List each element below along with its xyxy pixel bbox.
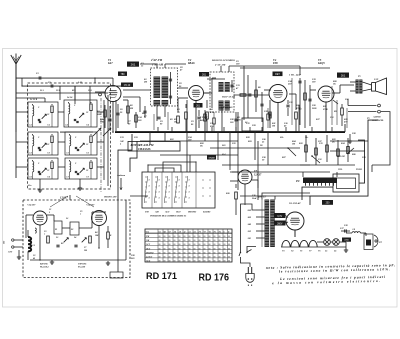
svg-text:88: 88 (194, 244, 196, 246)
svg-text:RADIO: RADIO (203, 211, 211, 214)
svg-text:87,5-108: 87,5-108 (78, 266, 85, 268)
svg-text:AUX: AUX (145, 260, 151, 263)
svg-text:C2A: C2A (88, 89, 92, 92)
svg-text:88: 88 (174, 252, 176, 254)
svg-text:2xOCT: 2xOCT (145, 257, 153, 259)
svg-text:88: 88 (164, 244, 166, 246)
svg-text:TONO: TONO (356, 169, 362, 171)
svg-text:98,3-118,3: 98,3-118,3 (40, 266, 49, 268)
svg-text:Z1: Z1 (55, 229, 57, 231)
svg-text:88: 88 (214, 252, 216, 254)
svg-text:88: 88 (219, 236, 221, 238)
svg-text:RD 176: RD 176 (199, 272, 230, 283)
svg-text:88: 88 (179, 257, 181, 259)
svg-text:½12AT7: ½12AT7 (86, 204, 95, 207)
svg-text:L5: L5 (66, 153, 69, 155)
svg-text:88: 88 (194, 261, 196, 263)
svg-text:88: 88 (164, 236, 166, 238)
svg-text:L1A: L1A (39, 89, 44, 92)
svg-text:88: 88 (174, 257, 176, 259)
svg-text:RD 171: RD 171 (146, 271, 178, 282)
svg-text:88: 88 (204, 261, 206, 263)
svg-text:88: 88 (159, 257, 161, 259)
svg-text:6,3V: 6,3V (277, 216, 282, 218)
svg-text:88: 88 (219, 248, 221, 250)
svg-text:CHASSIS: CHASSIS (138, 147, 151, 151)
svg-text:88: 88 (189, 257, 191, 259)
svg-text:88: 88 (209, 252, 211, 254)
svg-text:88: 88 (184, 257, 186, 259)
svg-text:88: 88 (179, 244, 181, 246)
svg-text:6A7: 6A7 (108, 62, 113, 65)
svg-text:AM: AM (145, 239, 149, 242)
svg-text:C2: C2 (33, 255, 35, 257)
svg-text:o8: o8 (178, 180, 180, 182)
svg-text:V6 AX5-4T: V6 AX5-4T (289, 202, 301, 205)
svg-text:88: 88 (214, 248, 216, 250)
svg-text:OCT: OCT (176, 212, 181, 214)
svg-text:88: 88 (228, 257, 230, 259)
svg-text:CAP: CAP (374, 78, 379, 81)
svg-text:88: 88 (224, 244, 226, 246)
svg-text:270K: 270K (322, 109, 328, 111)
svg-text:L5: L5 (188, 231, 191, 233)
svg-text:GRAM: GRAM (209, 156, 215, 159)
svg-text:88: 88 (209, 240, 211, 242)
svg-text:88: 88 (189, 240, 191, 242)
svg-text:88: 88 (204, 236, 206, 238)
svg-text:88: 88 (164, 261, 166, 263)
svg-text:88: 88 (199, 248, 201, 250)
svg-text:88: 88 (209, 244, 211, 246)
svg-text:88: 88 (199, 252, 201, 254)
svg-text:88: 88 (179, 236, 181, 238)
svg-text:R4: R4 (95, 231, 97, 234)
svg-text:88: 88 (214, 236, 216, 238)
svg-text:88: 88 (159, 252, 161, 254)
svg-text:6AQ5: 6AQ5 (318, 62, 325, 65)
svg-text:88: 88 (228, 240, 230, 242)
svg-text:o8: o8 (188, 180, 190, 182)
svg-text:2°AF-AM: 2°AF-AM (214, 64, 226, 67)
svg-text:2: 2 (48, 212, 50, 214)
svg-text:FM-OSC: FM-OSC (78, 264, 87, 266)
svg-text:88: 88 (169, 252, 171, 254)
svg-text:R21: R21 (170, 139, 174, 141)
svg-text:TRAP-AF 460: TRAP-AF 460 (222, 96, 236, 99)
svg-text:PHONO ANT: PHONO ANT (104, 196, 117, 199)
svg-text:88: 88 (224, 248, 226, 250)
svg-text:261: 261 (341, 74, 346, 78)
svg-text:V1: V1 (300, 251, 302, 253)
svg-text:88: 88 (199, 257, 201, 259)
svg-text:88: 88 (189, 236, 191, 238)
svg-text:88: 88 (199, 236, 201, 238)
svg-text:ANT: ANT (7, 251, 13, 254)
svg-text:VOL: VOL (338, 169, 343, 171)
svg-text:C1A: C1A (56, 89, 60, 92)
svg-text:40: 40 (32, 257, 35, 260)
svg-text:88: 88 (219, 261, 221, 263)
svg-text:C3: C3 (44, 231, 46, 233)
svg-text:o8: o8 (158, 192, 160, 194)
svg-text:12AX7: 12AX7 (254, 174, 262, 177)
svg-text:C3: C3 (48, 153, 50, 155)
svg-text:12AT7: 12AT7 (60, 196, 68, 200)
svg-text:88: 88 (169, 240, 171, 242)
svg-text:88: 88 (159, 244, 161, 246)
svg-text:88: 88 (204, 252, 206, 254)
svg-text:88: 88 (179, 261, 181, 263)
svg-text:1M: 1M (272, 126, 275, 128)
svg-text:88: 88 (194, 240, 196, 242)
svg-text:L4: L4 (73, 236, 76, 239)
svg-text:o8: o8 (178, 192, 180, 194)
svg-text:2K: 2K (331, 142, 335, 144)
svg-text:½12AT7: ½12AT7 (27, 204, 36, 207)
svg-text:88: 88 (164, 257, 166, 259)
svg-text:88: 88 (164, 252, 166, 254)
svg-text:N2: N2 (218, 231, 221, 233)
svg-text:88: 88 (219, 257, 221, 259)
svg-text:88: 88 (194, 252, 196, 254)
svg-text:1 TB - 22uF: 1 TB - 22uF (289, 74, 302, 77)
svg-text:88: 88 (184, 236, 186, 238)
svg-text:88: 88 (219, 252, 221, 254)
svg-text:Z2: Z2 (71, 229, 73, 231)
svg-text:ACT: ACT (145, 243, 151, 246)
svg-text:88: 88 (189, 252, 191, 254)
svg-text:88: 88 (214, 240, 216, 242)
svg-text:88: 88 (169, 261, 171, 263)
svg-text:PHONO: PHONO (188, 212, 197, 214)
svg-text:L4: L4 (65, 124, 68, 127)
svg-text:L2: L2 (65, 218, 68, 220)
svg-text:88: 88 (224, 252, 226, 254)
svg-text:PU: PU (296, 180, 300, 183)
svg-text:V7: V7 (204, 231, 206, 233)
svg-text:L3: L3 (29, 153, 32, 155)
svg-text:88: 88 (219, 240, 221, 242)
svg-text:C6: C6 (48, 177, 50, 179)
svg-text:C5: C5 (87, 153, 89, 155)
svg-text:88: 88 (179, 252, 181, 254)
svg-text:C5: C5 (80, 211, 82, 213)
svg-text:6T8: 6T8 (273, 62, 278, 65)
svg-text:88: 88 (174, 244, 176, 246)
svg-text:o8: o8 (188, 192, 190, 194)
svg-text:88: 88 (214, 257, 216, 259)
svg-text:o8: o8 (148, 186, 150, 188)
svg-text:L6: L6 (193, 231, 196, 233)
svg-text:o8: o8 (158, 198, 160, 200)
svg-text:88: 88 (228, 244, 230, 246)
svg-text:88: 88 (169, 236, 171, 238)
svg-text:88: 88 (204, 257, 206, 259)
svg-text:PHONO: PHONO (146, 252, 154, 254)
svg-text:88: 88 (224, 261, 226, 263)
svg-text:88: 88 (209, 236, 211, 238)
svg-text:o8: o8 (188, 198, 190, 200)
svg-text:L2 C2 R: L2 C2 R (29, 99, 38, 101)
svg-text:L6: L6 (29, 177, 32, 179)
svg-text:88: 88 (184, 240, 186, 242)
svg-text:88: 88 (219, 244, 221, 246)
svg-text:88: 88 (228, 236, 230, 238)
svg-text:88: 88 (159, 236, 161, 238)
svg-text:o8: o8 (178, 186, 180, 188)
svg-text:Jackson: Jackson (117, 174, 126, 177)
svg-text:L5: L5 (324, 251, 327, 253)
svg-text:88: 88 (228, 261, 230, 263)
svg-text:6BA6: 6BA6 (188, 62, 195, 65)
svg-text:88: 88 (194, 236, 196, 238)
svg-text:88: 88 (204, 244, 206, 246)
svg-text:88: 88 (189, 248, 191, 250)
svg-text:C1: C1 (36, 73, 39, 75)
svg-text:88: 88 (199, 244, 201, 246)
svg-text:2M: 2M (129, 108, 133, 110)
svg-text:88: 88 (228, 252, 230, 254)
svg-text:2M: 2M (143, 82, 147, 84)
svg-text:88: 88 (224, 236, 226, 238)
svg-text:88: 88 (209, 261, 211, 263)
svg-text:88: 88 (209, 248, 211, 250)
svg-text:2°AF-FM: 2°AF-FM (150, 59, 163, 62)
svg-text:88: 88 (159, 261, 161, 263)
svg-text:88: 88 (184, 261, 186, 263)
svg-text:1M: 1M (292, 144, 295, 146)
svg-text:o8: o8 (148, 180, 150, 182)
svg-text:o8: o8 (168, 180, 170, 182)
svg-text:88: 88 (224, 257, 226, 259)
svg-text:N1: N1 (213, 231, 216, 233)
svg-text:L4 C4: L4 C4 (66, 96, 72, 99)
svg-text:88: 88 (159, 248, 161, 250)
svg-text:261: 261 (131, 63, 136, 67)
svg-text:FM: FM (146, 236, 149, 238)
svg-text:260V: 260V (277, 223, 283, 225)
svg-text:88: 88 (164, 240, 166, 242)
svg-text:o8: o8 (158, 186, 160, 188)
svg-text:o8: o8 (168, 198, 170, 200)
svg-text:OCT: OCT (146, 248, 151, 250)
svg-text:S1c: S1c (305, 137, 308, 139)
svg-text:R1A: R1A (72, 89, 76, 92)
svg-text:o8: o8 (148, 192, 150, 194)
svg-text:o8: o8 (188, 186, 190, 188)
svg-text:88: 88 (224, 240, 226, 242)
svg-text:ACT: ACT (164, 211, 170, 214)
svg-text:V3: V3 (282, 251, 284, 253)
svg-text:88: 88 (194, 257, 196, 259)
svg-text:88: 88 (174, 261, 176, 263)
svg-text:88: 88 (174, 248, 176, 250)
svg-text:C4: C4 (87, 124, 89, 127)
svg-text:88: 88 (204, 248, 206, 250)
svg-text:88: 88 (174, 240, 176, 242)
svg-text:88: 88 (199, 240, 201, 242)
svg-text:88: 88 (214, 244, 216, 246)
svg-text:V5: V5 (318, 251, 320, 253)
svg-text:88: 88 (184, 252, 186, 254)
svg-text:SUPPLEM.: SUPPLEM. (372, 119, 384, 122)
svg-text:POSIZIONI DEL COMMUTATORE S1: POSIZIONI DEL COMMUTATORE S1 (150, 215, 186, 218)
svg-text:88: 88 (184, 248, 186, 250)
svg-text:88: 88 (174, 236, 176, 238)
svg-text:R28 1M: R28 1M (337, 156, 346, 158)
svg-text:500: 500 (84, 250, 87, 252)
svg-text:50uF: 50uF (252, 198, 257, 200)
svg-text:261: 261 (202, 73, 207, 76)
svg-text:AM: AM (119, 140, 123, 143)
svg-text:30K: 30K (99, 122, 104, 124)
svg-text:o8: o8 (148, 198, 150, 200)
svg-text:o8: o8 (158, 180, 160, 182)
svg-text:88: 88 (184, 244, 186, 246)
svg-text:V2: V2 (291, 251, 293, 253)
svg-text:88: 88 (169, 244, 171, 246)
svg-text:88: 88 (209, 257, 211, 259)
svg-text:88: 88 (169, 248, 171, 250)
svg-text:o8: o8 (168, 186, 170, 188)
svg-text:R2: R2 (61, 243, 63, 245)
svg-text:300: 300 (4, 241, 6, 245)
svg-text:C5 40: C5 40 (124, 84, 131, 87)
svg-text:88: 88 (159, 240, 161, 242)
svg-text:88: 88 (204, 240, 206, 242)
svg-text:780: 780 (121, 73, 126, 76)
svg-text:88: 88 (164, 248, 166, 250)
svg-text:88: 88 (194, 248, 196, 250)
svg-text:88: 88 (214, 261, 216, 263)
svg-text:88: 88 (179, 248, 181, 250)
svg-text:C1: C1 (49, 209, 51, 211)
svg-text:C31: C31 (318, 159, 322, 161)
svg-text:DET: DET (275, 74, 280, 76)
svg-text:C2: C2 (48, 125, 50, 127)
svg-text:L2: L2 (29, 125, 32, 127)
svg-text:BLOCCO ACCORDO: BLOCCO ACCORDO (211, 59, 235, 62)
svg-text:88: 88 (228, 248, 230, 250)
svg-text:o8: o8 (178, 198, 180, 200)
svg-text:12: 12 (183, 231, 185, 233)
svg-text:KR-OSC: KR-OSC (39, 264, 48, 266)
svg-text:88: 88 (169, 257, 171, 259)
svg-text:L3: L3 (55, 237, 58, 239)
svg-text:88: 88 (189, 261, 191, 263)
svg-text:L1: L1 (32, 245, 35, 247)
svg-text:V6: V6 (209, 231, 211, 233)
svg-text:88: 88 (199, 261, 201, 263)
svg-text:88: 88 (179, 240, 181, 242)
svg-text:88: 88 (189, 244, 191, 246)
svg-text:o8: o8 (168, 192, 170, 194)
